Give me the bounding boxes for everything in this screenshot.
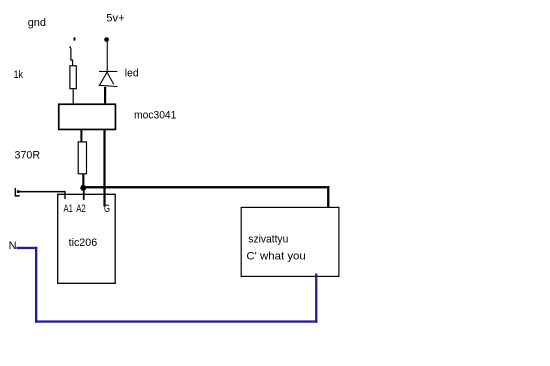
optocoupler U1 moc3041 body	[59, 104, 116, 129]
led D1 cathode bar	[99, 71, 117, 72]
svg-text:370R: 370R	[15, 149, 41, 161]
wire D1 anode to U1	[104, 87, 106, 104]
wire down to load box	[327, 186, 329, 208]
wire gnd to R1	[71, 48, 73, 65]
load box szivattyu	[241, 207, 339, 276]
blue neutral wire bottom horizontal	[35, 320, 317, 322]
wire U1 to R2	[80, 130, 82, 142]
svg-text:N: N	[9, 240, 17, 252]
terminal L mark	[15, 188, 20, 197]
svg-text:led: led	[125, 68, 139, 80]
blue neutral wire right vertical into load	[315, 274, 317, 323]
wire node to load (horizontal)	[83, 186, 329, 188]
svg-text:moc3041: moc3041	[134, 109, 176, 121]
svg-text:C' what you: C' what you	[246, 251, 305, 263]
svg-text:A1: A1	[64, 203, 73, 215]
wire R1 to U1	[73, 89, 74, 104]
wire R2 to node	[82, 174, 84, 187]
triac Q1 tic206 body	[58, 194, 115, 283]
resistor R2 370R body	[78, 142, 86, 174]
svg-text:G: G	[104, 203, 110, 215]
svg-text:5v+: 5v+	[106, 12, 124, 24]
wire L to A1	[17, 191, 66, 193]
wire 5v+ to D1	[107, 42, 108, 72]
svg-text:tic206: tic206	[69, 237, 98, 249]
stub into A1	[64, 191, 65, 199]
led D1 triangle	[100, 72, 114, 85]
svg-text:A2: A2	[76, 203, 86, 215]
led D1 anode base line	[99, 85, 118, 86]
wire U1 to gate G	[103, 130, 105, 207]
node 5v+	[104, 37, 109, 42]
resistor R1 1k body	[70, 66, 76, 89]
svg-text:gnd: gnd	[28, 17, 46, 29]
svg-text:szivattyu: szivattyu	[248, 233, 288, 245]
stub into A2	[83, 188, 85, 200]
svg-text:1k: 1k	[14, 69, 24, 81]
blue neutral wire from N	[16, 247, 37, 249]
blue neutral wire left vertical	[35, 247, 37, 323]
junction node	[80, 185, 86, 191]
gnd terminal mark	[70, 37, 76, 48]
